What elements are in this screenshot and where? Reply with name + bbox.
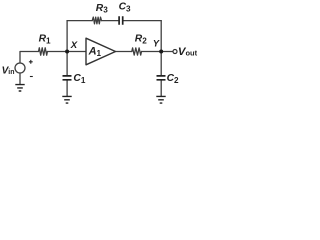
resistor R2 xyxy=(132,48,142,55)
svg-text:Y: Y xyxy=(153,38,160,48)
resistor R1 xyxy=(39,48,48,55)
wire left riser X to top rail xyxy=(66,21,68,52)
ground below C2 xyxy=(156,96,165,103)
wire top rail left segment xyxy=(67,20,92,22)
output terminal circle xyxy=(173,50,177,54)
minus polarity mark xyxy=(30,76,33,78)
voltage source Vin circle xyxy=(15,63,25,73)
wire node Y down to C2 xyxy=(160,52,162,76)
wire source bottom to ground xyxy=(19,73,21,84)
wire top rail middle segment xyxy=(102,20,119,22)
wire source top corner to R1 xyxy=(20,52,39,64)
resistor R3 xyxy=(92,17,101,24)
ground below source xyxy=(15,85,24,91)
capacitor C1 plates xyxy=(63,76,72,80)
op-amp A1 xyxy=(86,38,116,65)
svg-text:X: X xyxy=(70,40,78,51)
wire top rail right segment xyxy=(124,20,162,22)
svg-text:C3: C3 xyxy=(119,2,131,14)
capacitor C3 plates xyxy=(119,16,123,25)
wire R1 to op-amp input through node X xyxy=(47,51,86,53)
ground below C1 xyxy=(62,96,71,103)
wire op-amp output to R2 xyxy=(116,51,132,53)
svg-text:R1: R1 xyxy=(39,34,51,46)
wire right riser top rail to Y xyxy=(160,21,162,52)
svg-text:C1: C1 xyxy=(73,73,85,85)
node Y junction dot xyxy=(159,50,163,54)
wire node X down to C1 xyxy=(66,52,68,76)
svg-text:C2: C2 xyxy=(167,73,179,85)
plus polarity mark xyxy=(29,60,33,64)
capacitor C2 plates xyxy=(157,76,166,80)
wire R2 to node Y and output terminal xyxy=(142,51,174,53)
svg-text:R3: R3 xyxy=(96,3,108,15)
node X junction dot xyxy=(65,50,69,54)
wire C2 to ground xyxy=(160,81,162,96)
svg-text:R2: R2 xyxy=(135,34,147,46)
wire C1 to ground xyxy=(66,81,68,96)
